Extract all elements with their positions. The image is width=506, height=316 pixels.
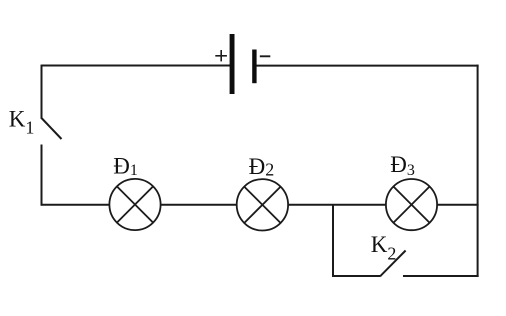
battery polarity label + — [215, 50, 227, 61]
svg-text:Đ2: Đ2 — [249, 154, 275, 179]
svg-text:K1: K1 — [9, 107, 35, 138]
lamp D3 circle — [386, 179, 437, 230]
battery B1 negative plate — [252, 50, 256, 84]
wire lamp D1 to lamp D2 — [161, 204, 237, 206]
wire left vertical upper (into switch K1) — [41, 65, 43, 118]
switch K1 blade — [41, 118, 62, 140]
wire K2 branch bottom-right — [403, 275, 479, 277]
switch K2 blade — [380, 251, 406, 277]
battery B1 positive plate — [230, 34, 235, 94]
wire lamp D3 to right rail — [437, 204, 479, 206]
wire lamp D2 to lamp D3 (through node to K2 branch) — [288, 204, 386, 206]
lamp D2 circle — [237, 179, 288, 230]
svg-text:Đ1: Đ1 — [113, 153, 138, 179]
wire top-right (battery - to right rail) — [256, 65, 479, 67]
lamp D3 cross — [393, 187, 429, 223]
wire top-left (battery + to K1 top) — [42, 65, 231, 67]
lamp D1 cross — [117, 186, 153, 222]
wire left vertical lower (switch K1 to bottom row) — [41, 145, 43, 206]
wire K2 branch bottom-left — [332, 275, 380, 277]
wire right vertical rail — [477, 65, 479, 277]
wire K2 branch vertical (node under D2-D3 wire) — [332, 205, 334, 277]
battery polarity label - — [260, 55, 271, 57]
lamp D2 cross — [244, 187, 280, 223]
lamp D1 circle — [109, 179, 160, 230]
wire bottom-left (to lamp D1) — [41, 204, 110, 206]
svg-text:Đ3: Đ3 — [390, 152, 415, 179]
svg-text:K2: K2 — [371, 232, 397, 264]
